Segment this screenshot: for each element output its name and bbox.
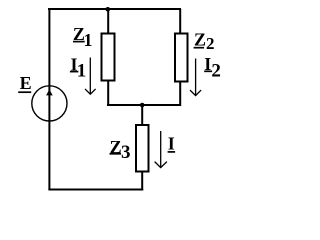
svg-text:3: 3 bbox=[121, 142, 131, 163]
svg-text:2: 2 bbox=[211, 61, 221, 82]
svg-text:Z: Z bbox=[194, 30, 206, 50]
svg-text:2: 2 bbox=[206, 34, 215, 53]
svg-text:1: 1 bbox=[84, 30, 93, 50]
svg-text:E: E bbox=[20, 73, 32, 93]
svg-text:I: I bbox=[168, 134, 175, 154]
